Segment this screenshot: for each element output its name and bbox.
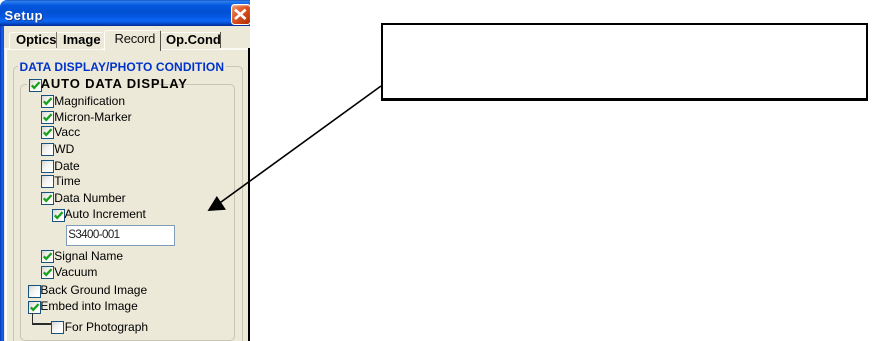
pane left white line — [5, 49, 7, 341]
checkbox Signal Name — [41, 250, 54, 263]
title text Setup — [5, 8, 44, 23]
checkbox Back Ground Image (unchecked) — [28, 285, 41, 298]
tab divider Optics|Image — [56, 32, 57, 48]
callout rectangle — [381, 23, 868, 101]
title bar — [0, 0, 250, 26]
tab Image — [57, 32, 103, 50]
checkbox Vacuum — [41, 266, 54, 279]
checkbox Data Number — [41, 192, 54, 205]
checkbox Embed into Image — [28, 301, 41, 314]
legend DATA DISPLAY/PHOTO CONDITION — [18, 60, 227, 74]
checkbox AUTO DATA DISPLAY — [27, 78, 157, 94]
tab Record (selected) — [104, 30, 161, 51]
checkbox Vacc — [41, 126, 54, 139]
dialog screenshot area — [0, 0, 250, 341]
checkbox Micron-Marker — [41, 111, 54, 124]
checkbox Magnification — [41, 95, 54, 108]
text field S3400-001 — [66, 225, 175, 246]
tab Op.Cond — [161, 32, 220, 50]
checkbox Auto Increment — [52, 209, 65, 222]
inner frame AUTO DATA DISPLAY — [20, 84, 236, 341]
checkbox WD (unchecked) — [41, 143, 54, 156]
dialog body — [4, 26, 250, 341]
checkbox Date (unchecked) — [41, 160, 54, 173]
L connector — [32, 313, 33, 325]
black right clip line — [248, 48, 250, 341]
close button — [231, 4, 251, 25]
checkbox For Photograph (unchecked) — [51, 321, 64, 334]
left window border — [0, 26, 4, 341]
checkbox Time (unchecked) — [41, 175, 54, 188]
group box DATA DISPLAY/PHOTO CONDITION — [13, 66, 244, 341]
tab divider after Op.Cond — [220, 32, 221, 48]
tab Optics — [9, 32, 57, 50]
pane top white line — [4, 48, 248, 50]
